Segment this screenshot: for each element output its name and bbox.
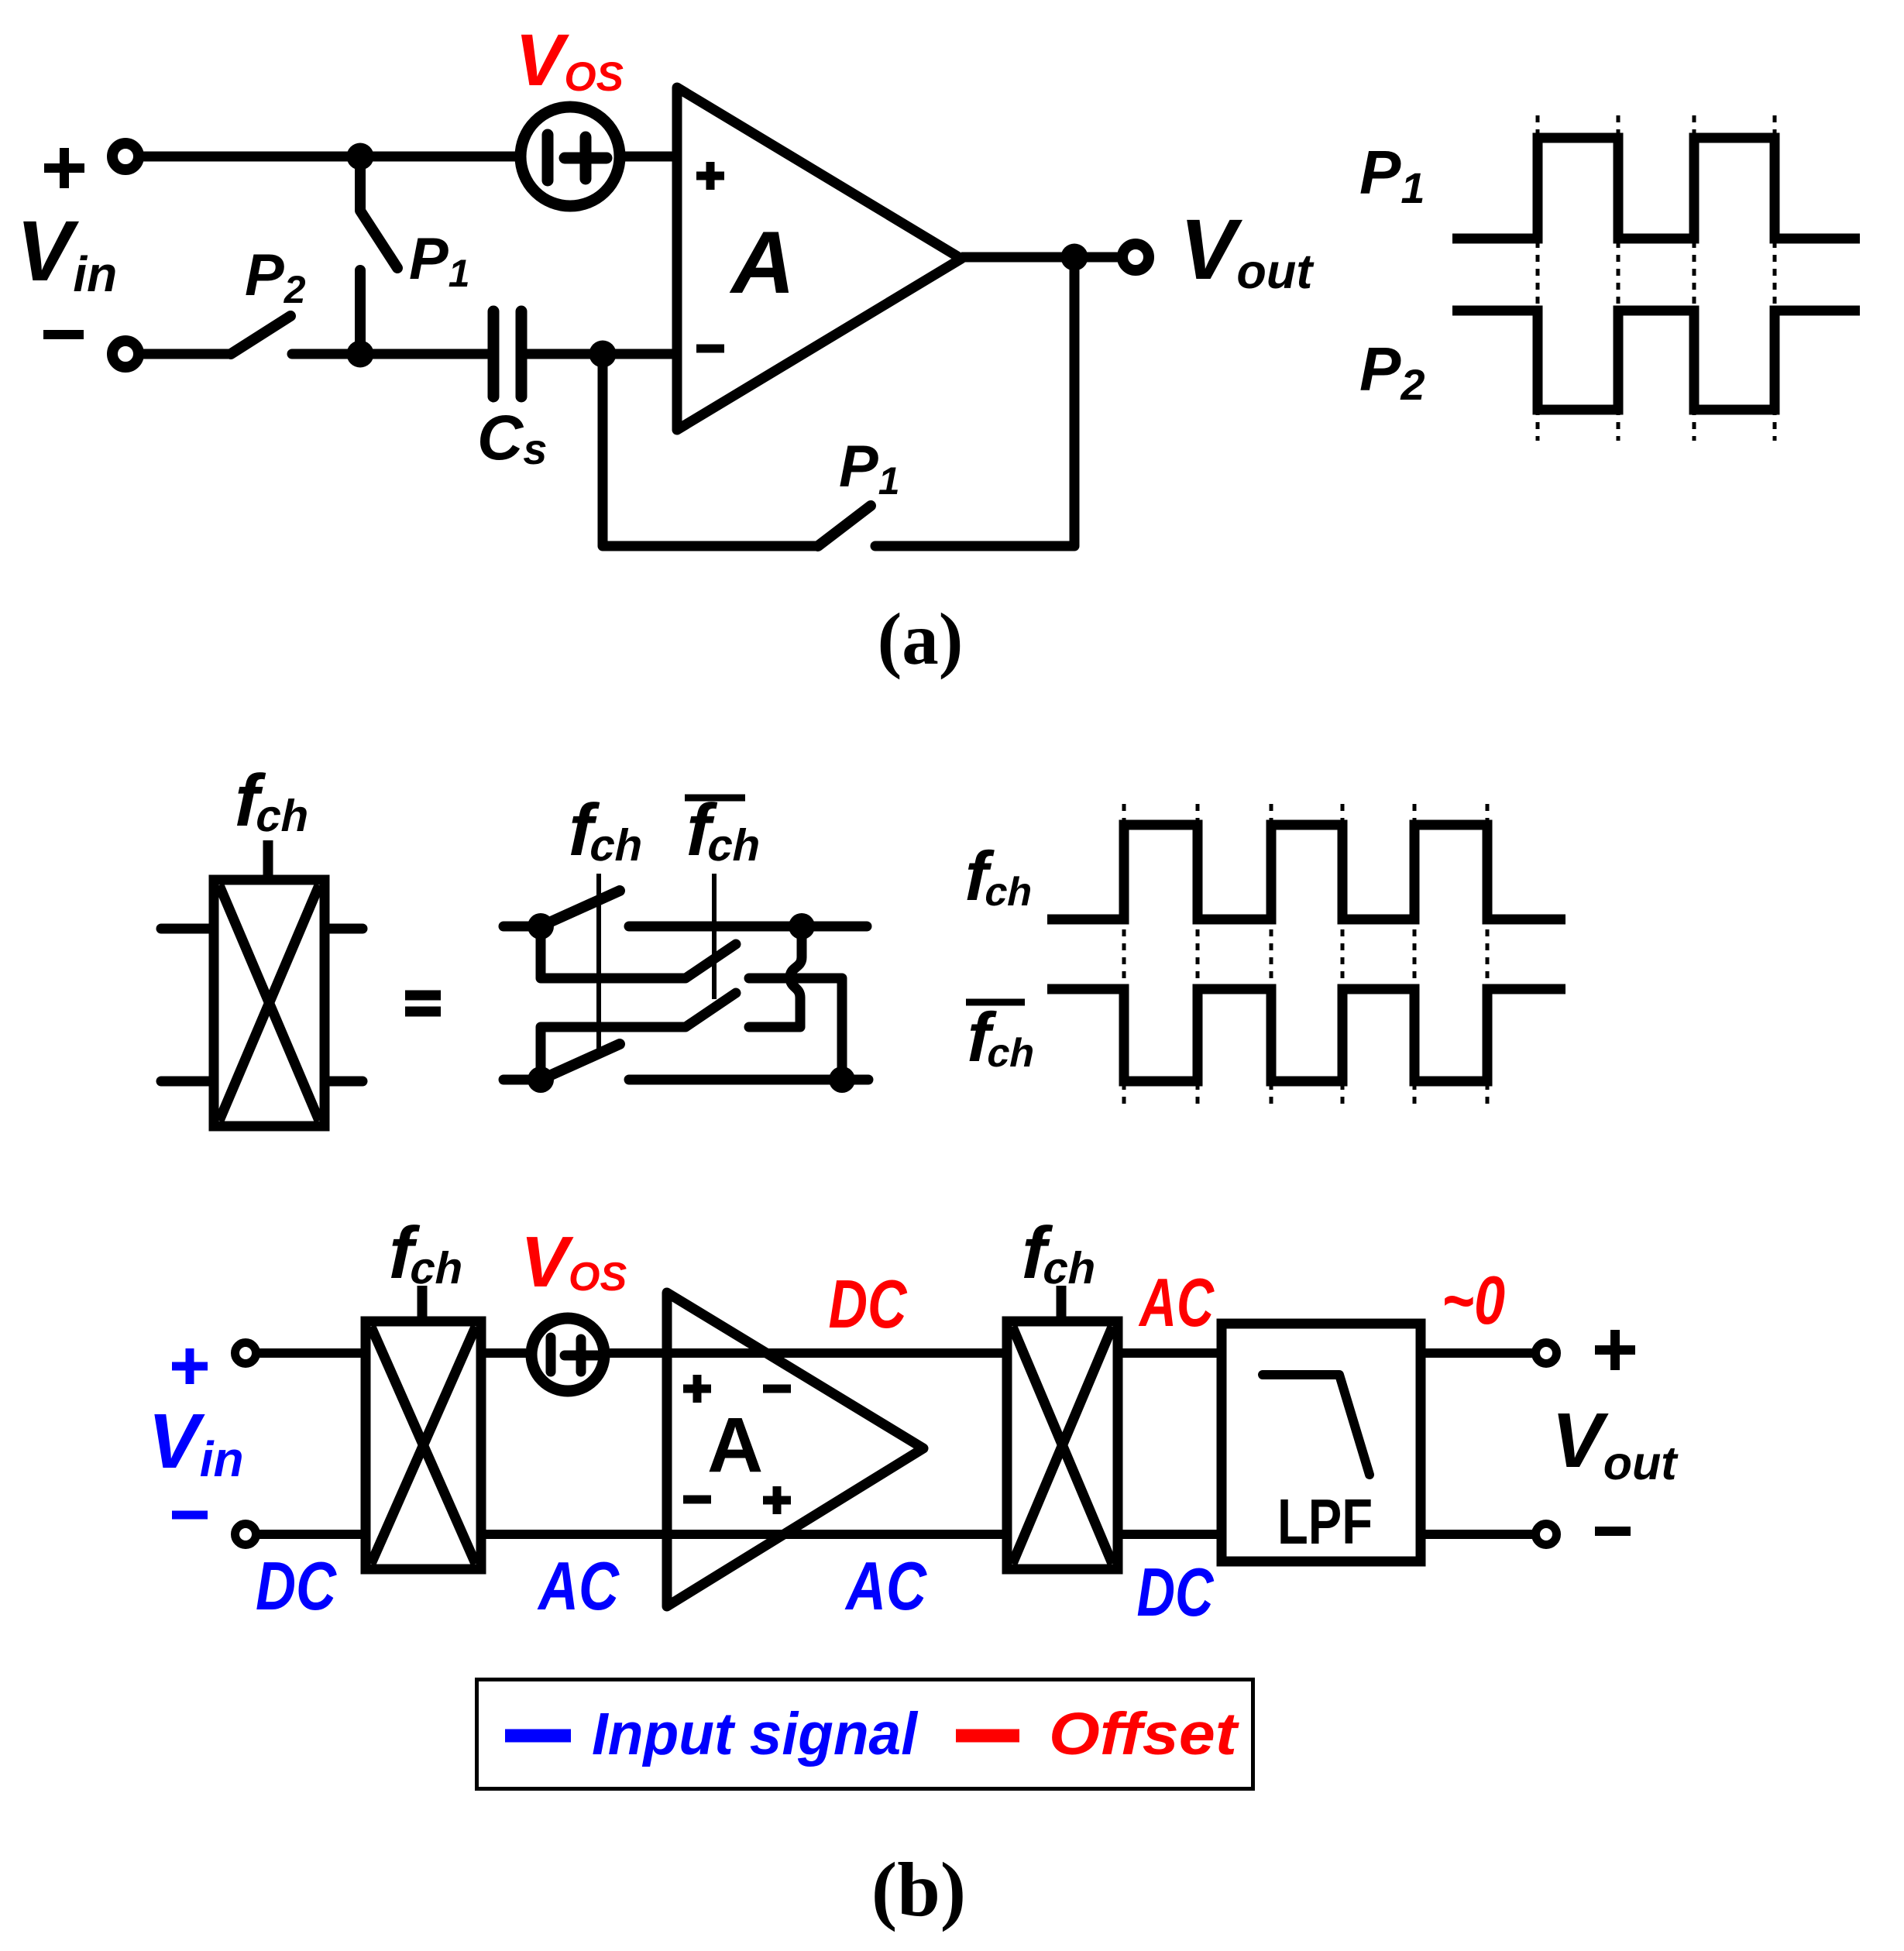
svg-text:LPF: LPF [1277,1486,1373,1558]
svg-text:A: A [707,1402,763,1489]
svg-text:(a): (a) [878,598,964,680]
svg-text:AC: AC [537,1547,620,1624]
svg-text:Offset: Offset [1049,1701,1240,1767]
svg-text:AC: AC [1138,1264,1215,1341]
svg-text:A: A [729,214,795,312]
svg-text:Input signal: Input signal [592,1701,919,1767]
svg-text:AC: AC [844,1547,927,1624]
svg-text:~0: ~0 [1442,1262,1505,1338]
svg-text:DC: DC [1137,1554,1215,1630]
svg-text:(b): (b) [871,1846,966,1932]
svg-text:DC: DC [829,1266,908,1342]
svg-text:DC: DC [256,1547,337,1624]
